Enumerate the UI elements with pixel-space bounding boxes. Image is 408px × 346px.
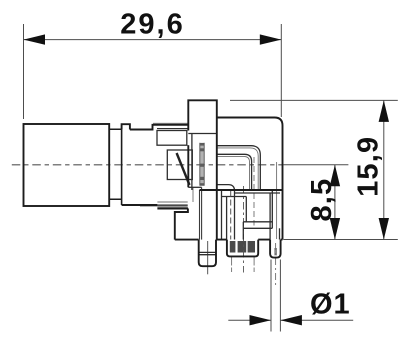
svg-text:Ø1: Ø1	[310, 288, 351, 320]
svg-text:15,9: 15,9	[353, 136, 385, 197]
svg-text:29,6: 29,6	[120, 8, 184, 40]
svg-text:8,5: 8,5	[306, 178, 338, 222]
